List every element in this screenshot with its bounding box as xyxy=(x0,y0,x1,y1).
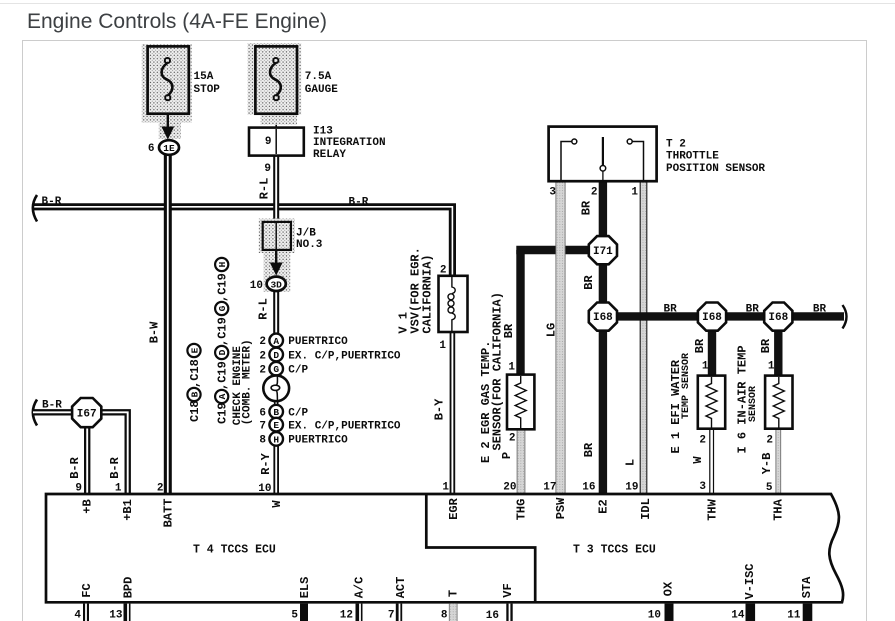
throttle position sensor T2 box xyxy=(549,127,657,182)
svg-text:2: 2 xyxy=(509,433,516,445)
svg-text:+B: +B xyxy=(81,499,95,513)
node circle H xyxy=(269,432,283,446)
svg-text:19: 19 xyxy=(625,481,638,493)
svg-text:H: H xyxy=(217,261,228,267)
svg-text:20: 20 xyxy=(503,481,516,493)
svg-text:I71: I71 xyxy=(593,246,613,258)
solenoid V1 VSV box xyxy=(439,276,468,332)
svg-text:2: 2 xyxy=(259,350,266,362)
T2 contact pin1 xyxy=(627,139,643,181)
svg-text:LG: LG xyxy=(545,323,559,337)
svg-text:CALIFORNIA): CALIFORNIA) xyxy=(421,254,435,333)
svg-text:PSW: PSW xyxy=(554,497,568,519)
svg-text:BR: BR xyxy=(746,304,760,316)
wire stub A/C xyxy=(359,604,360,621)
connector I71 octagon xyxy=(589,236,617,264)
svg-text:16: 16 xyxy=(582,481,595,493)
ECU outline T4+T3 xyxy=(46,494,843,602)
svg-text:BR: BR xyxy=(693,338,707,353)
svg-text:16: 16 xyxy=(486,610,499,621)
node circle A xyxy=(269,334,283,348)
svg-text:1E: 1E xyxy=(163,143,175,154)
svg-text:IDL: IDL xyxy=(639,498,653,520)
svg-text:W: W xyxy=(270,500,284,508)
svg-text:9: 9 xyxy=(264,163,271,175)
svg-text:3D: 3D xyxy=(270,279,282,290)
sensor I6 in-air temp box xyxy=(765,376,792,429)
svg-text:10: 10 xyxy=(648,609,661,621)
svg-text:2: 2 xyxy=(766,435,773,447)
svg-text:,C19: ,C19 xyxy=(216,273,230,302)
svg-text:STA: STA xyxy=(800,576,814,598)
J/B internal wire xyxy=(275,223,277,249)
wire B-Y from VSV to ECU pin1 xyxy=(450,332,456,494)
svg-text:EX. C/P,PUERTRICO: EX. C/P,PUERTRICO xyxy=(288,350,401,362)
svg-text:15A: 15A xyxy=(194,71,214,83)
wire W below water temp sensor xyxy=(710,429,714,494)
wire from J/B to arrow xyxy=(275,249,277,263)
svg-text:INTEGRATION: INTEGRATION xyxy=(313,137,386,149)
svg-text:EGR: EGR xyxy=(447,497,461,519)
wire B-R bus horizontal with corner down to VSV xyxy=(33,207,452,277)
svg-text:2: 2 xyxy=(591,187,598,199)
svg-text:H: H xyxy=(273,434,279,445)
svg-text:7.5A: 7.5A xyxy=(305,71,332,83)
wire L vertical xyxy=(640,182,647,495)
page title xyxy=(27,10,327,34)
svg-text:4: 4 xyxy=(74,609,81,621)
wire stub STA xyxy=(803,604,813,621)
svg-text:SENSOR(FOR CALIFORNIA): SENSOR(FOR CALIFORNIA) xyxy=(491,292,505,450)
fuse F2 element xyxy=(270,58,281,100)
connector 1E oval xyxy=(159,140,179,155)
svg-text:NO.3: NO.3 xyxy=(296,239,323,251)
wire stub T gray xyxy=(449,604,457,621)
svg-text:L: L xyxy=(624,459,638,466)
wire BR thick from T2 pin2 to I71 xyxy=(599,182,607,238)
svg-text:A: A xyxy=(273,336,279,347)
svg-text:1: 1 xyxy=(631,187,638,199)
svg-text:I68: I68 xyxy=(702,312,722,324)
svg-text:W: W xyxy=(691,456,705,464)
svg-text:J/B: J/B xyxy=(296,227,316,239)
T2 wiper pin2 xyxy=(600,137,606,181)
node BR chain right flag xyxy=(843,305,847,329)
fuse F2 7.5A GAUGE box xyxy=(255,46,297,113)
T2 contact pin3 xyxy=(561,139,577,181)
connector I68 octagon third xyxy=(764,303,792,331)
svg-text:,C19: ,C19 xyxy=(216,317,230,346)
svg-text:THG: THG xyxy=(514,499,528,521)
svg-text:GAUGE: GAUGE xyxy=(305,84,338,96)
svg-text:A/C: A/C xyxy=(353,577,367,599)
wire R-L from 3D to circle A xyxy=(273,290,279,341)
svg-text:B-Y: B-Y xyxy=(433,398,447,420)
svg-text:2: 2 xyxy=(157,482,164,494)
svg-text:E2: E2 xyxy=(597,499,611,513)
svg-text:EX. C/P,PUERTRICO: EX. C/P,PUERTRICO xyxy=(288,420,401,432)
svg-text:BR: BR xyxy=(664,304,678,316)
svg-text:R-L: R-L xyxy=(256,298,270,320)
svg-text:1: 1 xyxy=(702,361,709,373)
svg-text:B-R: B-R xyxy=(42,399,62,411)
svg-text:B-R: B-R xyxy=(108,456,122,478)
svg-text:,C18: ,C18 xyxy=(188,359,202,388)
svg-text:12: 12 xyxy=(340,609,353,621)
svg-text:8: 8 xyxy=(441,609,448,621)
svg-text:VF: VF xyxy=(501,583,515,597)
svg-text:A: A xyxy=(217,393,228,399)
svg-text:RELAY: RELAY xyxy=(313,149,346,161)
relay I13 box xyxy=(249,128,304,156)
node circle B xyxy=(269,405,283,419)
svg-text:T: T xyxy=(447,590,461,597)
svg-text:G: G xyxy=(273,364,279,375)
svg-text:T 3 TCCS ECU: T 3 TCCS ECU xyxy=(573,544,656,557)
svg-text:B: B xyxy=(189,391,200,397)
wire BR stub to in-air temp sensor xyxy=(774,329,782,377)
svg-text:PUERTRICO: PUERTRICO xyxy=(288,435,348,447)
wire R-Y from H to ECU W xyxy=(273,439,279,494)
svg-text:C/P: C/P xyxy=(288,365,308,377)
svg-text:13: 13 xyxy=(109,609,123,621)
wire stub V-ISC xyxy=(745,604,755,621)
svg-text:C/P: C/P xyxy=(288,407,308,419)
svg-text:I67: I67 xyxy=(77,409,97,421)
wire B-W from 1E to ECU BATT xyxy=(164,154,172,494)
sensor E2 EGR gas temp box xyxy=(507,375,534,430)
sensor E1 resistor element xyxy=(706,377,717,428)
svg-text:C18: C18 xyxy=(188,400,202,422)
svg-text:BR: BR xyxy=(813,304,827,316)
svg-text:BR: BR xyxy=(582,275,596,290)
svg-text:3: 3 xyxy=(699,481,706,493)
wire check engine circle chain xyxy=(274,340,279,440)
svg-text:2: 2 xyxy=(259,336,266,348)
svg-text:B-R: B-R xyxy=(68,456,82,478)
wire Y-B band below in-air temp sensor xyxy=(776,428,781,494)
svg-text:D: D xyxy=(217,349,228,355)
svg-text:THW: THW xyxy=(706,498,720,520)
wire R-L relay to J/B xyxy=(273,156,279,224)
svg-text:C19: C19 xyxy=(216,402,230,424)
node circle G xyxy=(269,362,283,376)
svg-text:T 2: T 2 xyxy=(666,138,686,150)
wire BR thick I71 to I68 to ECU pin16 xyxy=(599,262,607,494)
svg-text:I68: I68 xyxy=(593,312,613,324)
connector 3D oval xyxy=(267,277,286,291)
wire stub BPD xyxy=(127,604,128,621)
svg-text:1: 1 xyxy=(442,481,449,493)
node circle D xyxy=(269,348,283,362)
svg-text:3: 3 xyxy=(549,187,556,199)
top hairline xyxy=(0,3,895,4)
svg-text:10: 10 xyxy=(250,280,263,292)
wire from fuse2 through relay xyxy=(275,99,277,155)
svg-text:(COMB. METER): (COMB. METER) xyxy=(242,339,254,425)
svg-text:PUERTRICO: PUERTRICO xyxy=(288,336,348,348)
svg-text:7: 7 xyxy=(259,420,266,432)
wire stub FC xyxy=(83,604,89,621)
sensor I6 resistor element xyxy=(773,377,784,428)
wire LG vertical xyxy=(556,182,566,495)
svg-text:T 4 TCCS ECU: T 4 TCCS ECU xyxy=(193,544,276,557)
node circle E xyxy=(269,418,283,432)
svg-text:E: E xyxy=(273,420,279,431)
connector I67 octagon xyxy=(72,398,101,427)
svg-text:1: 1 xyxy=(508,362,515,374)
wire LG overlay at BR crossing xyxy=(556,243,566,258)
svg-text:STOP: STOP xyxy=(194,84,221,96)
svg-text:2: 2 xyxy=(699,435,706,447)
svg-text:P: P xyxy=(500,452,514,459)
svg-text:1: 1 xyxy=(439,340,446,352)
svg-text:B: B xyxy=(273,407,279,418)
junction block J/B NO.3 xyxy=(263,222,291,250)
svg-text:BATT: BATT xyxy=(161,499,175,528)
svg-text:V-ISC: V-ISC xyxy=(743,563,757,599)
svg-text:R-L: R-L xyxy=(258,178,272,200)
label column C19(A),C19(D),C19(G),C19(H) rotated xyxy=(215,258,229,424)
svg-text:BR: BR xyxy=(759,338,773,353)
svg-text:I13: I13 xyxy=(313,126,333,138)
arrow under J/B xyxy=(270,250,283,276)
svg-text:POSITION SENSOR: POSITION SENSOR xyxy=(666,163,765,175)
svg-text:G: G xyxy=(217,305,228,311)
svg-text:9: 9 xyxy=(75,482,82,494)
fuse F1 stipple halo xyxy=(142,44,192,139)
sensor E2 resistor element xyxy=(515,376,526,428)
svg-text:BR: BR xyxy=(582,442,596,457)
svg-text:10: 10 xyxy=(258,483,271,495)
svg-text:8: 8 xyxy=(259,435,266,447)
svg-text:6: 6 xyxy=(259,407,266,419)
wire stub ACT xyxy=(396,604,403,621)
svg-text:1: 1 xyxy=(768,361,775,373)
lamp check engine xyxy=(263,375,289,401)
svg-text:Y-B: Y-B xyxy=(760,453,774,475)
wire B-R from I67 to ECU +B xyxy=(84,425,90,494)
svg-text:E: E xyxy=(189,347,200,353)
svg-text:ACT: ACT xyxy=(394,577,408,599)
wire B-R I67 right horizontal to ECU +B1 xyxy=(98,412,128,494)
svg-text:OX: OX xyxy=(662,581,676,596)
connector I68 octagon first xyxy=(589,303,617,331)
svg-text:B-W: B-W xyxy=(147,321,161,343)
svg-text:THA: THA xyxy=(772,498,786,520)
svg-text:7: 7 xyxy=(388,609,395,621)
fuse F1 element xyxy=(162,58,173,100)
VSV coil element xyxy=(448,277,455,331)
svg-text:R-Y: R-Y xyxy=(259,452,273,474)
svg-text:17: 17 xyxy=(543,481,556,493)
svg-text:+B1: +B1 xyxy=(121,499,135,521)
svg-text:5: 5 xyxy=(766,482,773,494)
svg-text:D: D xyxy=(273,350,279,361)
arrow under fuse F1 xyxy=(161,114,174,140)
wire stub OX xyxy=(665,604,674,621)
svg-text:11: 11 xyxy=(787,609,801,621)
svg-text:6: 6 xyxy=(148,143,155,155)
svg-text:I68: I68 xyxy=(768,312,788,324)
svg-text:FC: FC xyxy=(80,583,94,597)
node bus left flag xyxy=(33,195,37,222)
svg-text:,C19: ,C19 xyxy=(216,361,230,390)
J/B NO.3 stipple halo xyxy=(259,219,295,292)
relay I13 internal wire xyxy=(275,129,277,154)
fuse F1 15A STOP box xyxy=(148,46,189,113)
wire P band below EGR gas temp sensor xyxy=(517,428,525,494)
wire B-R into I67 xyxy=(33,409,75,415)
svg-text:14: 14 xyxy=(731,609,745,621)
wire BR stub to EFI water temp sensor xyxy=(708,329,716,377)
svg-text:BPD: BPD xyxy=(122,577,136,599)
svg-text:THROTTLE: THROTTLE xyxy=(666,151,719,163)
wire BR thick I68 chain horizontal xyxy=(615,312,844,320)
label column C18(B),C18(E) rotated xyxy=(187,344,201,422)
svg-text:B-R: B-R xyxy=(42,196,62,208)
svg-text:9: 9 xyxy=(265,136,272,148)
connector I68 octagon second xyxy=(698,303,726,331)
svg-text:ELS: ELS xyxy=(298,577,312,599)
svg-text:5: 5 xyxy=(291,609,298,621)
fuse F2 stipple halo xyxy=(248,43,302,125)
svg-text:2: 2 xyxy=(259,365,266,377)
svg-text:1: 1 xyxy=(115,482,122,494)
wire BR thick I71 left branch horizontal xyxy=(516,246,590,254)
wire stub VF xyxy=(506,604,512,621)
ECU divider step xyxy=(426,494,535,602)
wire from fuse1 to arrow xyxy=(167,99,169,127)
wire BR thick down to EGR gas temp sensor xyxy=(516,250,524,376)
svg-text:BR: BR xyxy=(580,200,594,215)
node B-R left flag at I67 xyxy=(33,400,37,426)
svg-text:SENSOR: SENSOR xyxy=(748,386,759,422)
svg-text:B-R: B-R xyxy=(349,196,369,208)
sensor E1 EFI water temp box xyxy=(698,376,725,429)
wire stub ELS xyxy=(300,604,308,621)
svg-text:TEMP SENSOR: TEMP SENSOR xyxy=(681,353,692,419)
